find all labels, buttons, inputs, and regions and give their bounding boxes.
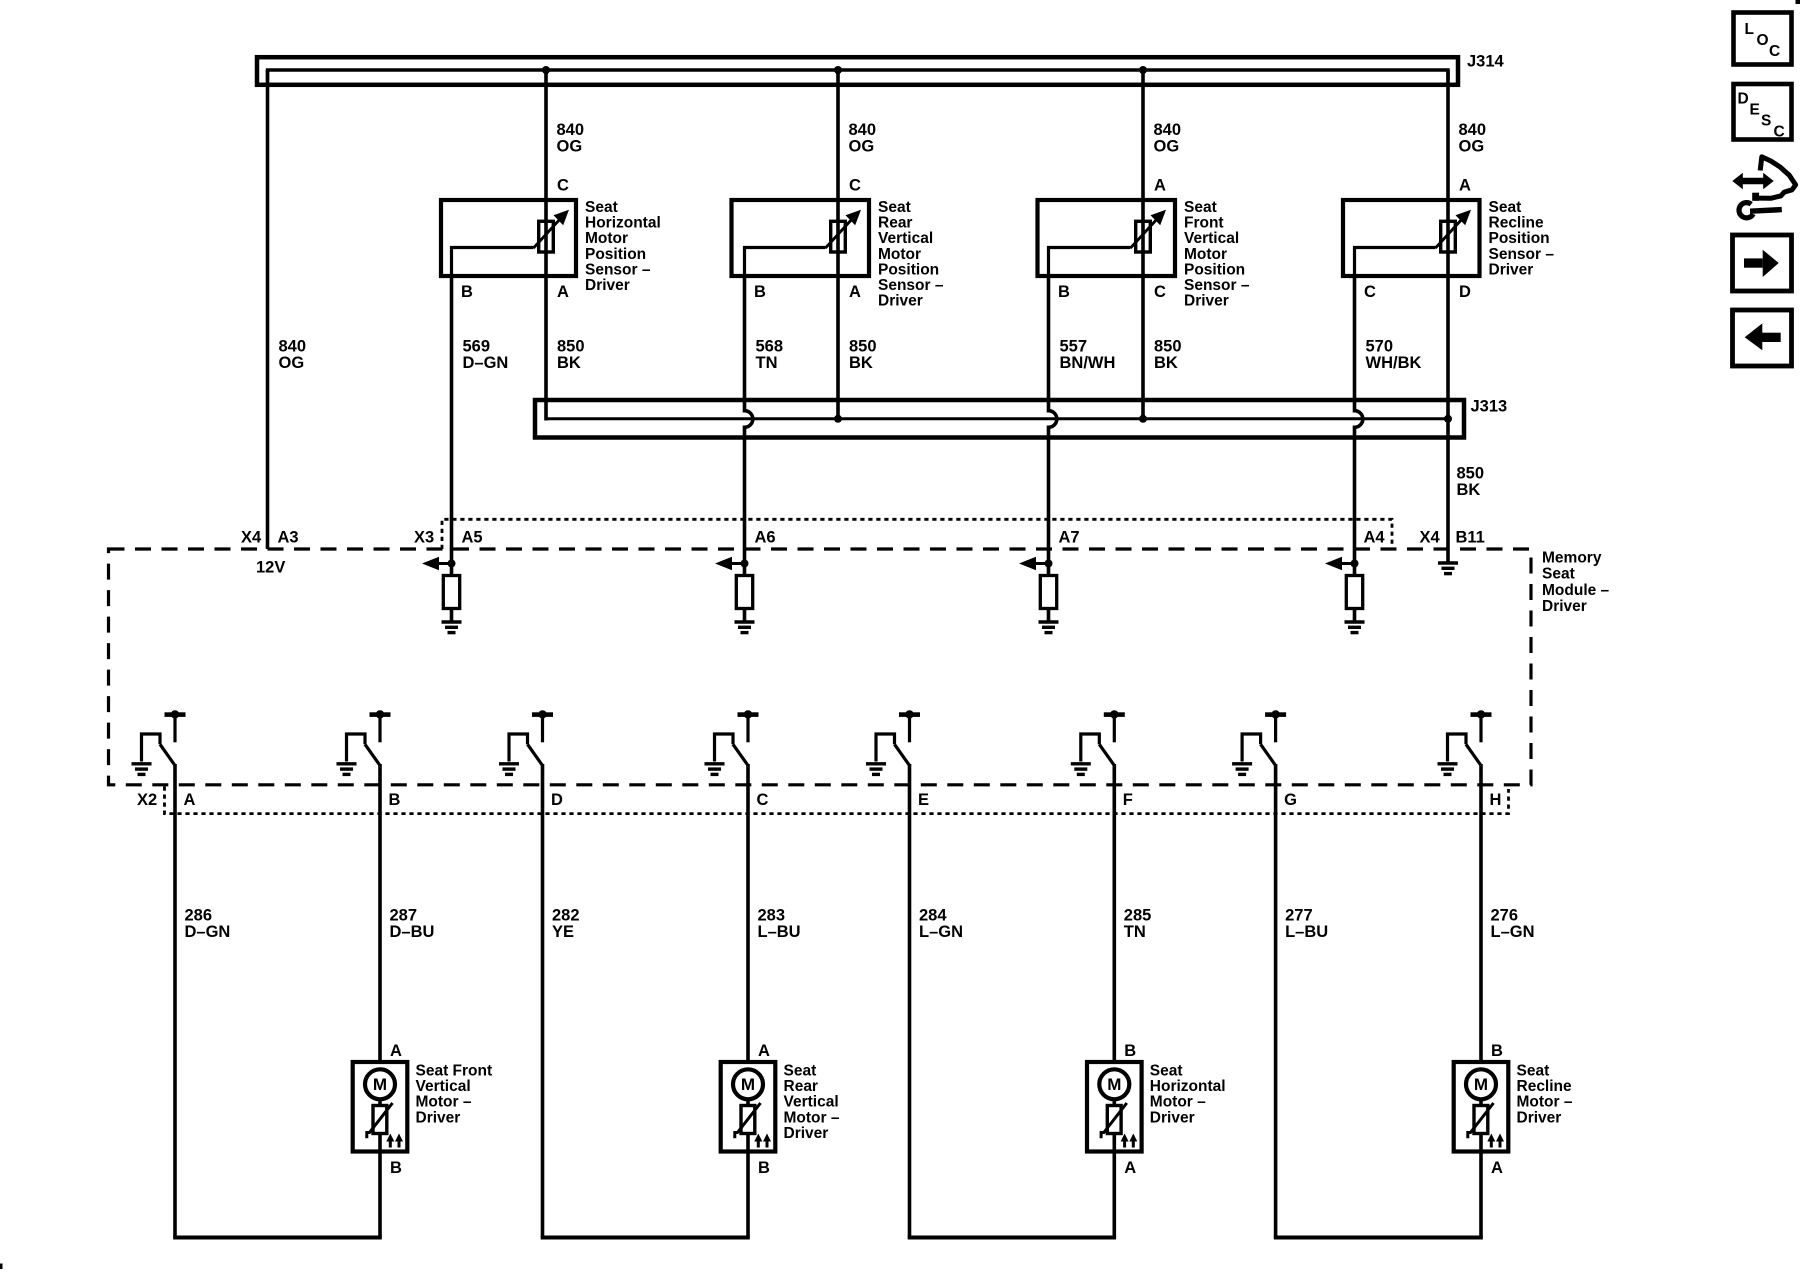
svg-text:Sensor –: Sensor –	[878, 277, 944, 294]
tools/navigation icon: panel outline	[1756, 157, 1796, 199]
svg-text:A: A	[849, 283, 861, 301]
potentiometer element of U3	[831, 221, 846, 252]
return wire bottom of motor M2 pair	[541, 1236, 750, 1240]
switch blade (pin A)	[160, 744, 175, 765]
svg-text:L: L	[1745, 21, 1754, 38]
svg-text:Vertical: Vertical	[1184, 230, 1239, 247]
svg-text:BK: BK	[849, 354, 873, 372]
svg-text:Seat: Seat	[585, 199, 618, 216]
position sensor U4 (Seat Front Vertical Motor Position Sensor - Driver) box	[1038, 200, 1176, 276]
svg-text:F: F	[1123, 791, 1133, 809]
return wire bottom of motor M4 pair	[1274, 1236, 1483, 1240]
ground symbol at switch (pin B)	[337, 762, 357, 765]
contact stub (pin B)	[378, 716, 381, 742]
driver output switch for pin A: fixed contact bar	[165, 712, 186, 717]
return wire bottom of motor M3 pair	[908, 1236, 1116, 1240]
motor M2 armature circle	[733, 1069, 763, 1099]
wire 570 WH/BK from sensor U5 pin C to module X3 A4 (hops over J313 bus)	[1355, 278, 1363, 549]
svg-text:12V: 12V	[256, 559, 285, 577]
svg-text:B: B	[461, 283, 473, 301]
contact stub (pin H)	[1479, 716, 1482, 742]
wire resistor to ground at A6	[743, 609, 747, 623]
wire motor M1 bottom to return	[378, 1150, 382, 1238]
svg-text:B: B	[1124, 1042, 1136, 1060]
wire motor M4 bottom to return	[1479, 1150, 1483, 1238]
wire 840 OG from J314 at x=1448 to position sensor	[1446, 70, 1450, 202]
junction dot on contact bar (pin A)	[171, 710, 179, 718]
junction at A4 input	[1351, 560, 1359, 568]
svg-text:YE: YE	[552, 923, 574, 941]
svg-text:B: B	[390, 1159, 402, 1177]
thermal protector arrows of M4	[1490, 1140, 1493, 1148]
motor M3 box	[1087, 1062, 1142, 1152]
svg-text:BN/WH: BN/WH	[1060, 354, 1116, 372]
junction on J313 at 1448	[1444, 415, 1452, 423]
signal tap arrow at A7	[1035, 562, 1049, 565]
splice pack J314 outline	[257, 57, 1458, 85]
svg-text:B: B	[1058, 283, 1070, 301]
motor M1 armature circle	[365, 1069, 395, 1099]
pull-down resistor at A6	[736, 576, 752, 609]
page crop mark bottom left	[0, 1264, 3, 1270]
svg-text:D–GN: D–GN	[463, 354, 509, 372]
svg-text:Motor –: Motor –	[784, 1109, 840, 1126]
svg-text:286: 286	[185, 907, 213, 925]
svg-text:568: 568	[756, 338, 784, 356]
ground-side contact bracket (pin A)	[142, 734, 161, 762]
ground-side contact bracket (pin H)	[1448, 734, 1467, 762]
ground-side contact bracket (pin G)	[1242, 734, 1261, 762]
thermal protector arrows of M2	[757, 1140, 760, 1148]
svg-text:850: 850	[849, 338, 877, 356]
svg-text:840: 840	[849, 121, 877, 139]
svg-text:Recline: Recline	[1517, 1078, 1573, 1095]
svg-text:S: S	[1761, 113, 1771, 130]
svg-text:J314: J314	[1467, 53, 1505, 71]
svg-text:C: C	[849, 177, 861, 195]
svg-text:Seat: Seat	[878, 199, 911, 216]
svg-text:B: B	[389, 791, 401, 809]
svg-text:M: M	[741, 1075, 755, 1094]
signal tap arrow at A5	[438, 562, 452, 565]
svg-text:O: O	[1757, 32, 1769, 49]
ground symbol at switch (pin D)	[499, 762, 519, 765]
thermal protector (PTC) of M2	[741, 1106, 755, 1134]
sensor U5 supply wire through box	[1446, 200, 1450, 278]
svg-text:284: 284	[919, 907, 947, 925]
svg-text:Rear: Rear	[878, 215, 912, 232]
svg-text:277: 277	[1285, 907, 1313, 925]
svg-text:Driver: Driver	[585, 277, 630, 294]
svg-text:BK: BK	[1457, 481, 1481, 499]
svg-text:A: A	[1459, 177, 1471, 195]
svg-text:850: 850	[557, 338, 585, 356]
svg-text:A6: A6	[755, 529, 776, 547]
sensor U3 supply wire through box	[836, 200, 840, 278]
svg-text:Module –: Module –	[1542, 582, 1610, 599]
svg-text:J313: J313	[1471, 398, 1508, 416]
svg-text:A: A	[1154, 177, 1166, 195]
svg-text:Position: Position	[1489, 230, 1550, 247]
wire armature to thermal protector in M2	[746, 1100, 750, 1106]
J313 internal bus bar	[546, 410, 1448, 419]
junction at A6 input	[741, 560, 749, 568]
svg-text:Seat Front: Seat Front	[416, 1063, 493, 1080]
signal tap arrow at A4	[1341, 562, 1355, 565]
wire 850 BK from sensor U5 pin D through J313 to module X4 B11	[1446, 276, 1450, 562]
ground-side contact bracket (pin B)	[347, 734, 366, 762]
svg-text:BK: BK	[557, 354, 581, 372]
svg-text:Vertical: Vertical	[878, 230, 933, 247]
svg-text:L–GN: L–GN	[919, 923, 963, 941]
svg-text:X4: X4	[241, 529, 262, 547]
svg-text:E: E	[1750, 102, 1760, 119]
svg-text:Seat: Seat	[1489, 199, 1522, 216]
svg-text:D–BU: D–BU	[390, 923, 435, 941]
svg-text:557: 557	[1060, 338, 1088, 356]
potentiometer element of U2	[539, 221, 554, 252]
junction dot on contact bar (pin C)	[744, 710, 752, 718]
wire armature to thermal protector in M3	[1113, 1100, 1117, 1106]
wire from switch to motor M1 (right leg, upper)	[378, 764, 382, 1064]
ground-side contact bracket (pin E)	[876, 734, 895, 762]
switch blade (pin B)	[365, 744, 380, 765]
ground symbol at switch (pin G)	[1232, 762, 1252, 765]
driver output switch for pin C: fixed contact bar	[738, 712, 759, 717]
svg-text:OG: OG	[1459, 137, 1485, 155]
sensor U5 wiper feed wire	[1355, 248, 1436, 279]
wire 840 OG from J314 at x=1143 to position sensor	[1141, 70, 1145, 202]
svg-text:Seat: Seat	[1184, 199, 1217, 216]
svg-text:569: 569	[463, 338, 491, 356]
sensor U3 wiper feed wire	[745, 248, 826, 279]
svg-text:X2: X2	[137, 791, 157, 809]
svg-text:Position: Position	[1184, 261, 1245, 278]
svg-text:A: A	[557, 283, 569, 301]
contact stub (pin D)	[541, 716, 544, 742]
switch blade (pin D)	[528, 744, 543, 765]
potentiometer wiper arrow of U3	[826, 218, 854, 248]
svg-text:A: A	[1124, 1159, 1136, 1177]
wire 850 BK from sensor U3 pin A to J313	[836, 276, 840, 421]
motor M4 box	[1454, 1062, 1509, 1152]
back nav arrow	[1762, 333, 1781, 342]
ground-side contact bracket (pin F)	[1081, 734, 1100, 762]
junction dot on contact bar (pin E)	[905, 710, 913, 718]
svg-text:A: A	[184, 791, 196, 809]
wire 850 BK from sensor U4 pin C to J313	[1141, 276, 1145, 421]
svg-text:B11: B11	[1456, 529, 1485, 547]
svg-text:A: A	[390, 1042, 402, 1060]
svg-text:D: D	[1459, 283, 1471, 301]
svg-text:A3: A3	[278, 529, 299, 547]
junction dot on contact bar (pin F)	[1110, 710, 1118, 718]
ground symbol at module pin X4 B11	[1438, 561, 1458, 564]
svg-text:Rear: Rear	[784, 1078, 818, 1095]
pull-down resistor at A4	[1346, 576, 1362, 609]
svg-text:C: C	[1774, 124, 1785, 141]
wire from switch to motor M4 (right leg, upper)	[1479, 764, 1483, 1064]
sensor U4 supply wire through box	[1141, 200, 1145, 278]
svg-text:OG: OG	[849, 137, 875, 155]
svg-text:Driver: Driver	[416, 1109, 461, 1126]
svg-text:Driver: Driver	[1542, 598, 1587, 615]
svg-text:840: 840	[279, 338, 307, 356]
junction on J313 at 838	[834, 415, 842, 423]
potentiometer wiper arrow of U2	[534, 218, 562, 248]
motor M3 armature circle	[1099, 1069, 1129, 1099]
module input A7: wire to sense resistor	[1047, 549, 1051, 576]
svg-text:Seat: Seat	[1150, 1063, 1183, 1080]
signal tap arrow at A6	[731, 562, 745, 565]
svg-text:Motor –: Motor –	[416, 1094, 472, 1111]
svg-text:287: 287	[390, 907, 418, 925]
driver output switch for pin G: fixed contact bar	[1265, 712, 1286, 717]
wire from switch to motor M1 return (left leg)	[173, 764, 177, 1238]
svg-text:BK: BK	[1154, 354, 1178, 372]
LOC nav icon box	[1734, 13, 1792, 65]
thermal protector (PTC) of M1	[373, 1106, 387, 1134]
svg-text:OG: OG	[1154, 137, 1180, 155]
svg-text:Vertical: Vertical	[416, 1078, 471, 1095]
potentiometer wiper arrow of U5	[1436, 218, 1464, 248]
forward nav arrow	[1744, 258, 1763, 267]
return wire bottom of motor M1 pair	[173, 1236, 382, 1240]
connector X3 dotted boundary	[442, 519, 1392, 549]
svg-text:850: 850	[1457, 465, 1485, 483]
svg-text:Position: Position	[878, 261, 939, 278]
motor M2 box	[721, 1062, 776, 1152]
DESC nav icon box	[1734, 84, 1792, 140]
svg-text:C: C	[557, 177, 569, 195]
wire from switch to motor M4 return (left leg)	[1274, 764, 1278, 1238]
svg-text:OG: OG	[279, 354, 305, 372]
svg-text:L–BU: L–BU	[758, 923, 801, 941]
svg-text:E: E	[918, 791, 929, 809]
forward nav icon box	[1733, 235, 1792, 291]
wire 840 OG from J314 to Memory Seat Module X4 A3	[266, 70, 270, 549]
sensor U2 wiper feed wire	[452, 248, 534, 279]
svg-text:Sensor –: Sensor –	[585, 261, 651, 278]
contact stub (pin C)	[746, 716, 749, 742]
motor M1 box	[353, 1062, 408, 1152]
svg-text:C: C	[1769, 43, 1780, 60]
wire resistor to ground at A5	[450, 609, 454, 623]
svg-text:Motor –: Motor –	[1517, 1094, 1573, 1111]
svg-text:M: M	[373, 1075, 387, 1094]
driver output switch for pin E: fixed contact bar	[899, 712, 920, 717]
wire resistor to ground at A4	[1353, 609, 1357, 623]
ground symbol at switch (pin F)	[1071, 762, 1091, 765]
driver output switch for pin F: fixed contact bar	[1104, 712, 1125, 717]
svg-text:276: 276	[1491, 907, 1519, 925]
svg-text:Driver: Driver	[1489, 261, 1534, 278]
svg-text:X4: X4	[1420, 529, 1441, 547]
svg-text:Sensor –: Sensor –	[1489, 246, 1555, 263]
svg-text:Vertical: Vertical	[784, 1094, 839, 1111]
position sensor U5 (Seat Recline Position Sensor - Driver) box	[1343, 200, 1480, 276]
wire motor M2 bottom to return	[746, 1150, 750, 1238]
potentiometer element of U4	[1136, 221, 1151, 252]
wire armature to thermal protector in M1	[378, 1100, 382, 1106]
svg-text:Motor: Motor	[585, 230, 628, 247]
junction dot on contact bar (pin B)	[376, 710, 384, 718]
svg-text:TN: TN	[756, 354, 778, 372]
wire from switch to motor M3 (right leg, upper)	[1113, 764, 1117, 1064]
svg-text:840: 840	[1459, 121, 1487, 139]
module input A6: wire to sense resistor	[743, 549, 747, 576]
junction on J314 at x=1143	[1139, 66, 1147, 74]
junction dot on contact bar (pin D)	[538, 710, 546, 718]
svg-text:570: 570	[1366, 338, 1394, 356]
svg-text:G: G	[1284, 791, 1297, 809]
svg-text:285: 285	[1124, 907, 1152, 925]
wire 569 D-GN from sensor U2 pin B to module X3 A5	[450, 278, 454, 549]
svg-text:Front: Front	[1184, 215, 1224, 232]
switch blade (pin H)	[1466, 744, 1481, 765]
wire 840 OG from J314 at x=546 to position sensor	[544, 70, 548, 202]
module input A5: wire to sense resistor	[450, 549, 454, 576]
sensor U4 wiper feed wire	[1049, 248, 1131, 279]
wire 850 BK from sensor U2 pin A to J313	[544, 276, 548, 421]
svg-text:840: 840	[1154, 121, 1182, 139]
svg-text:OG: OG	[557, 137, 583, 155]
svg-text:D: D	[1738, 91, 1749, 108]
svg-text:Position: Position	[585, 246, 646, 263]
ground symbol at A6	[735, 620, 755, 623]
wire 840 OG from J314 at x=838 to position sensor	[836, 70, 840, 202]
ground-side contact bracket (pin D)	[509, 734, 528, 762]
svg-text:Driver: Driver	[1184, 293, 1229, 310]
svg-text:Motor: Motor	[878, 246, 921, 263]
driver output switch for pin B: fixed contact bar	[370, 712, 391, 717]
wire resistor to ground at A7	[1047, 609, 1051, 623]
back nav icon box	[1733, 310, 1792, 366]
svg-text:H: H	[1490, 791, 1502, 809]
pull-down resistor at A5	[443, 576, 459, 609]
svg-text:M: M	[1474, 1075, 1488, 1094]
ground symbol at switch (pin C)	[705, 762, 725, 765]
sensor U2 supply wire through box	[544, 200, 548, 278]
svg-text:B: B	[1491, 1042, 1503, 1060]
svg-text:C: C	[757, 791, 769, 809]
wire armature to thermal protector in M4	[1479, 1100, 1483, 1106]
contact stub (pin A)	[173, 716, 176, 742]
junction on J314 at x=546	[542, 66, 550, 74]
wire motor M3 bottom to return	[1113, 1150, 1117, 1238]
svg-text:X3: X3	[414, 529, 434, 547]
switch blade (pin G)	[1261, 744, 1276, 765]
connector X2 dotted boundary	[165, 787, 1509, 814]
wire thermal to box bottom in M2	[746, 1134, 750, 1152]
svg-text:Recline: Recline	[1489, 215, 1545, 232]
Memory Seat Module - Driver dashed outline	[109, 549, 1532, 785]
svg-text:Motor –: Motor –	[1150, 1094, 1206, 1111]
thermal protector (PTC) of M3	[1107, 1106, 1121, 1134]
svg-text:850: 850	[1154, 338, 1182, 356]
junction on J314 at x=838	[834, 66, 842, 74]
svg-text:Driver: Driver	[1517, 1109, 1562, 1126]
svg-text:Seat: Seat	[1542, 566, 1575, 583]
switch blade (pin F)	[1099, 744, 1114, 765]
ground symbol at A4	[1345, 620, 1365, 623]
tools/navigation icon: wrench	[1750, 210, 1782, 212]
ground symbol at A5	[442, 620, 462, 623]
svg-text:M: M	[1107, 1075, 1121, 1094]
wire from switch to motor M2 (right leg, upper)	[746, 764, 750, 1064]
svg-text:A: A	[1491, 1159, 1503, 1177]
svg-text:B: B	[758, 1159, 770, 1177]
svg-text:D: D	[551, 791, 563, 809]
thermal protector (PTC) of M4	[1474, 1106, 1488, 1134]
ground symbol at switch (pin A)	[132, 762, 152, 765]
svg-text:A5: A5	[462, 529, 483, 547]
svg-text:Horizontal: Horizontal	[585, 215, 661, 232]
svg-text:A: A	[758, 1042, 770, 1060]
junction dot on contact bar (pin H)	[1477, 710, 1485, 718]
svg-text:282: 282	[552, 907, 580, 925]
contact stub (pin E)	[908, 716, 911, 742]
potentiometer wiper arrow of U4	[1131, 218, 1159, 248]
svg-text:D–GN: D–GN	[185, 923, 231, 941]
svg-text:Driver: Driver	[784, 1125, 829, 1142]
thermal protector arrows of M1	[389, 1140, 392, 1148]
svg-text:Sensor –: Sensor –	[1184, 277, 1250, 294]
ground-side contact bracket (pin C)	[715, 734, 734, 762]
pull-down resistor at A7	[1040, 576, 1056, 609]
svg-text:L–GN: L–GN	[1491, 923, 1535, 941]
tools/navigation icon: double arrow	[1741, 178, 1765, 185]
thermal protector arrows of M3	[1123, 1140, 1126, 1148]
J314 internal bus bar	[268, 70, 1449, 80]
switch blade (pin E)	[895, 744, 910, 765]
svg-text:Seat: Seat	[784, 1063, 817, 1080]
wire from switch to motor M3 return (left leg)	[908, 764, 912, 1238]
svg-text:TN: TN	[1124, 923, 1146, 941]
junction at A5 input	[448, 560, 456, 568]
junction on J313 at 1143	[1139, 415, 1147, 423]
wire from switch to motor M2 return (left leg)	[541, 764, 545, 1238]
svg-text:A4: A4	[1364, 529, 1386, 547]
svg-text:Driver: Driver	[878, 293, 923, 310]
svg-text:Driver: Driver	[1150, 1109, 1195, 1126]
wire thermal to box bottom in M4	[1479, 1134, 1483, 1152]
wire 568 TN from sensor U3 pin B to module X3 A6 (hops over J313 bus)	[745, 278, 753, 549]
svg-text:Memory: Memory	[1542, 550, 1602, 567]
wire 557 BN/WH from sensor U4 pin B to module X3 A7 (hops over J313 bus)	[1049, 278, 1057, 549]
svg-text:A7: A7	[1059, 529, 1080, 547]
potentiometer element of U5	[1441, 221, 1456, 252]
contact stub (pin G)	[1274, 716, 1277, 742]
splice pack J313 outline	[535, 400, 1464, 438]
motor M4 armature circle	[1466, 1069, 1496, 1099]
svg-text:840: 840	[557, 121, 585, 139]
driver output switch for pin D: fixed contact bar	[532, 712, 553, 717]
wire thermal to box bottom in M3	[1113, 1134, 1117, 1152]
svg-text:C: C	[1364, 283, 1376, 301]
wire thermal to box bottom in M1	[378, 1134, 382, 1152]
svg-text:Horizontal: Horizontal	[1150, 1078, 1226, 1095]
contact stub (pin F)	[1113, 716, 1116, 742]
svg-text:C: C	[1154, 283, 1166, 301]
position sensor U2 (Seat Horizontal Motor Position Sensor - Driver) box	[441, 200, 576, 276]
driver output switch for pin H: fixed contact bar	[1471, 712, 1492, 717]
ground symbol at A7	[1039, 620, 1059, 623]
ground symbol at switch (pin E)	[866, 762, 886, 765]
svg-text:Seat: Seat	[1517, 1063, 1550, 1080]
module input A4: wire to sense resistor	[1353, 549, 1357, 576]
junction dot on contact bar (pin G)	[1271, 710, 1279, 718]
